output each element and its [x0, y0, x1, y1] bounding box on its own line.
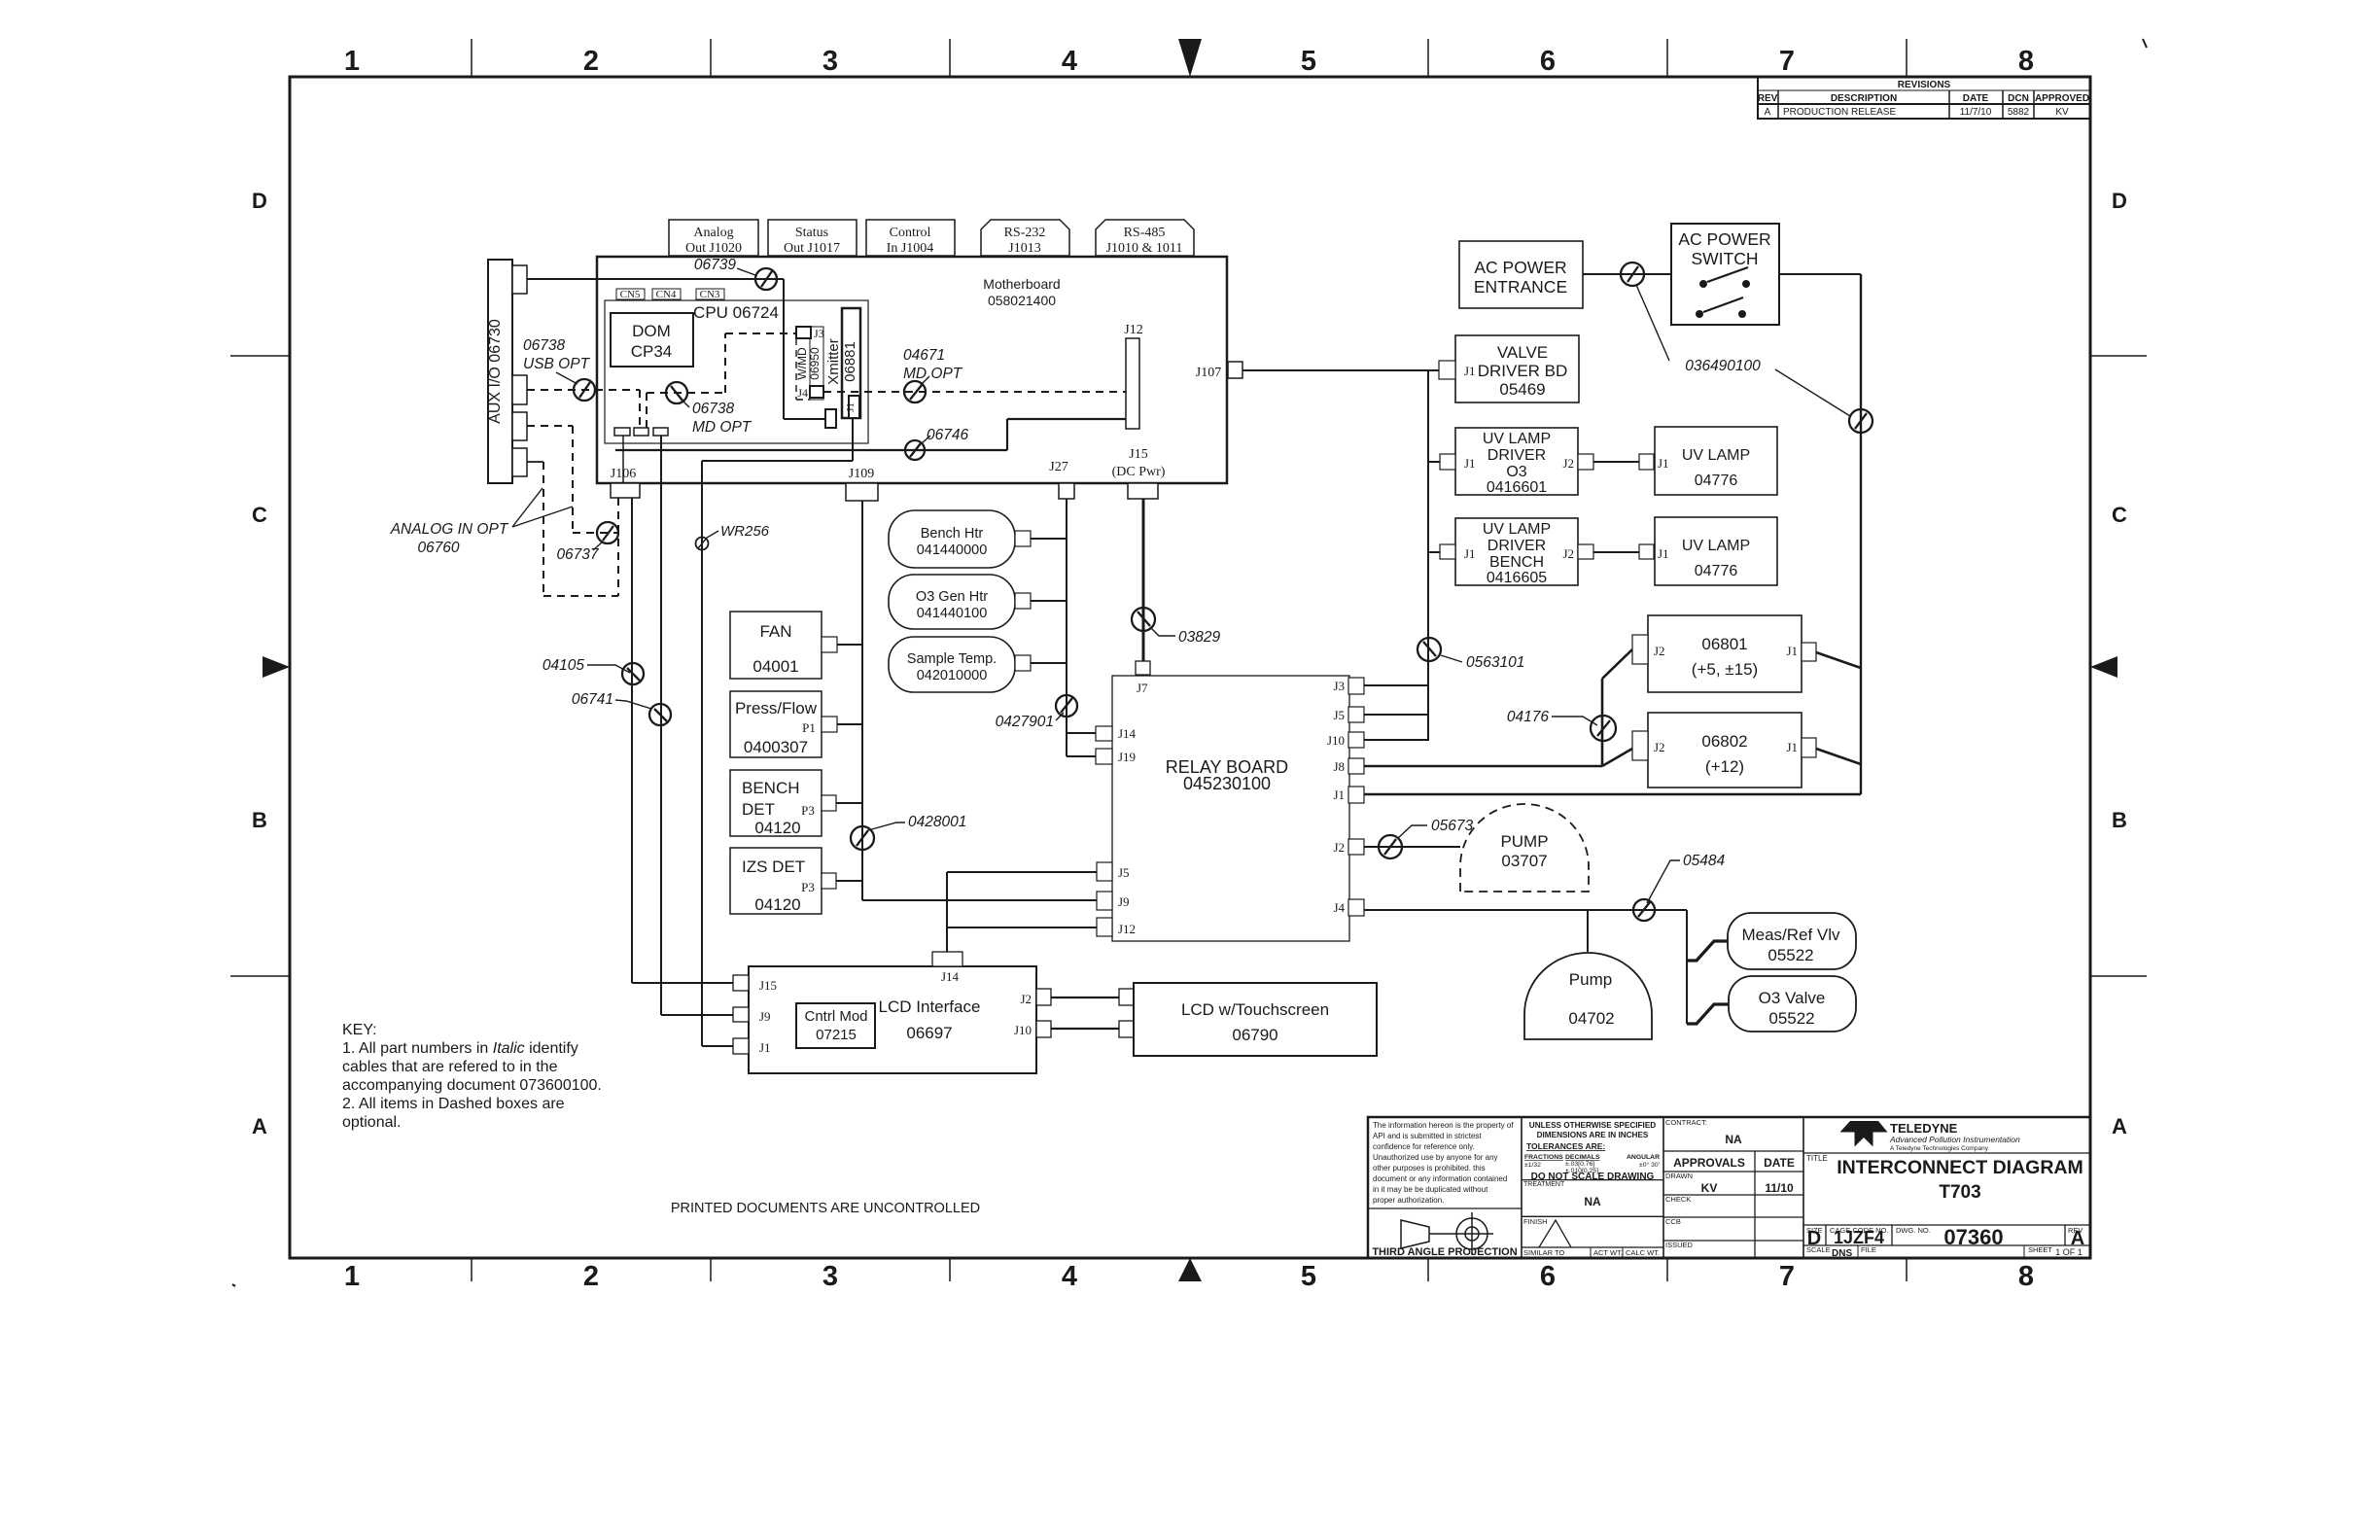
svg-text:DRIVER BD: DRIVER BD	[1478, 362, 1568, 380]
svg-text:CP34: CP34	[631, 342, 673, 361]
svg-text:04176: 04176	[1507, 709, 1549, 725]
svg-text:05484: 05484	[1683, 853, 1725, 869]
svg-text:Bench Htr: Bench Htr	[921, 526, 984, 542]
svg-text:J9: J9	[759, 1009, 771, 1024]
svg-text:DNS: DNS	[1832, 1248, 1852, 1259]
svg-text:J109: J109	[849, 467, 874, 481]
svg-text:AC POWER: AC POWER	[1678, 229, 1770, 249]
svg-text:06881: 06881	[842, 341, 858, 382]
svg-text:03829: 03829	[1178, 629, 1220, 646]
svg-text:J19: J19	[1118, 750, 1136, 764]
svg-text:Advanced Pollution Instrumenta: Advanced Pollution Instrumentation	[1889, 1135, 2020, 1144]
svg-text:TOLERANCES ARE:: TOLERANCES ARE:	[1526, 1141, 1605, 1151]
svg-text:±1/32: ±1/32	[1524, 1162, 1541, 1169]
svg-text:J15: J15	[759, 978, 777, 993]
svg-text:A Teledyne Technologies Compan: A Teledyne Technologies Company	[1890, 1145, 1989, 1152]
svg-text:CONTRACT:: CONTRACT:	[1665, 1118, 1707, 1127]
svg-text:041440100: 041440100	[917, 606, 988, 621]
svg-text:P3: P3	[801, 880, 815, 894]
svg-text:FINISH: FINISH	[1523, 1217, 1548, 1226]
svg-text:DATE: DATE	[1963, 93, 1989, 104]
svg-text:Control: Control	[890, 226, 931, 240]
svg-text:J2: J2	[1654, 644, 1665, 658]
svg-text:J1: J1	[1786, 740, 1798, 754]
svg-text:A: A	[2071, 1228, 2084, 1249]
svg-text:DRAWN: DRAWN	[1665, 1172, 1693, 1180]
svg-text:C: C	[252, 503, 267, 527]
svg-text:04671: 04671	[903, 347, 945, 364]
svg-text:MD OPT: MD OPT	[692, 419, 752, 436]
svg-text:1: 1	[344, 46, 360, 77]
svg-text:Out J1020: Out J1020	[685, 241, 742, 256]
svg-text:±0° 30': ±0° 30'	[1639, 1161, 1660, 1169]
svg-text:J1: J1	[1786, 644, 1798, 658]
svg-text:J15: J15	[1129, 447, 1147, 462]
svg-text:036490100: 036490100	[1685, 358, 1761, 374]
svg-text:5: 5	[1301, 1261, 1316, 1292]
svg-text:PRODUCTION RELEASE: PRODUCTION RELEASE	[1783, 107, 1896, 118]
svg-text:J8: J8	[1333, 759, 1345, 774]
svg-text:J2: J2	[1562, 546, 1574, 561]
svg-text:0400307: 0400307	[744, 738, 808, 756]
svg-text:2. All items in Dashed boxes a: 2. All items in Dashed boxes are	[342, 1096, 565, 1112]
svg-text:J5: J5	[1333, 708, 1345, 722]
svg-text:06746: 06746	[927, 427, 968, 443]
svg-text:(DC Pwr): (DC Pwr)	[1112, 465, 1166, 479]
svg-text:Motherboard: Motherboard	[983, 276, 1060, 292]
svg-text:04001: 04001	[752, 657, 798, 676]
svg-text:UV LAMP: UV LAMP	[1483, 431, 1551, 447]
svg-text:FRACTIONS: FRACTIONS	[1524, 1154, 1563, 1161]
svg-text:other purposes is prohibited.: other purposes is prohibited. this	[1373, 1164, 1486, 1172]
svg-text:Analog: Analog	[693, 226, 733, 240]
svg-text:RS-232: RS-232	[1004, 226, 1046, 240]
svg-text:UV LAMP: UV LAMP	[1682, 447, 1750, 464]
svg-text:THIRD ANGLE PROJECTION: THIRD ANGLE PROJECTION	[1372, 1246, 1517, 1258]
svg-text:J5: J5	[1118, 865, 1130, 880]
svg-text:0427901: 0427901	[996, 714, 1054, 730]
svg-text:J4: J4	[797, 386, 808, 400]
svg-text:4: 4	[1062, 1261, 1077, 1292]
svg-text:PRINTED DOCUMENTS ARE UNCONTRO: PRINTED DOCUMENTS ARE UNCONTROLLED	[671, 1201, 980, 1216]
svg-text:W/MD: W/MD	[795, 347, 809, 380]
svg-text:BENCH: BENCH	[742, 779, 800, 797]
svg-text:042010000: 042010000	[917, 668, 988, 683]
svg-text:06760: 06760	[417, 540, 459, 556]
svg-text:J1: J1	[1464, 364, 1476, 378]
svg-text:RS-485: RS-485	[1124, 226, 1166, 240]
svg-text:3: 3	[822, 46, 838, 77]
svg-text:8: 8	[2018, 1261, 2034, 1292]
svg-text:8: 8	[2018, 46, 2034, 77]
svg-text:proper authorization.: proper authorization.	[1373, 1196, 1444, 1205]
svg-text:Status: Status	[795, 226, 828, 240]
svg-text:SWITCH: SWITCH	[1691, 249, 1758, 268]
svg-text:04120: 04120	[754, 895, 800, 914]
svg-text:TREATMENT: TREATMENT	[1523, 1181, 1565, 1188]
svg-text:DCN: DCN	[2008, 93, 2029, 104]
svg-text:BENCH: BENCH	[1489, 554, 1544, 571]
svg-text:REV: REV	[1758, 93, 1778, 104]
svg-text:2: 2	[583, 46, 599, 77]
svg-text:In J1004: In J1004	[887, 241, 934, 256]
svg-text:J12: J12	[1118, 922, 1136, 936]
svg-text:CN5: CN5	[620, 289, 641, 300]
svg-text:P3: P3	[801, 803, 815, 818]
svg-text:7: 7	[1779, 1261, 1795, 1292]
svg-text:T703: T703	[1939, 1182, 1980, 1203]
svg-text:J2: J2	[1654, 740, 1665, 754]
svg-text:ANGULAR: ANGULAR	[1627, 1154, 1660, 1161]
svg-text:ACT WT.: ACT WT.	[1593, 1248, 1623, 1257]
svg-text:CN3: CN3	[700, 289, 720, 300]
svg-text:05522: 05522	[1767, 946, 1813, 964]
svg-text:11/7/10: 11/7/10	[1960, 107, 1992, 118]
svg-text:CALC WT.: CALC WT.	[1626, 1248, 1660, 1257]
svg-text:J27: J27	[1049, 460, 1067, 474]
svg-text:06739: 06739	[694, 257, 736, 273]
svg-text:J7: J7	[1137, 681, 1148, 695]
svg-text:CPU 06724: CPU 06724	[693, 303, 779, 322]
svg-text:J1013: J1013	[1008, 241, 1040, 256]
svg-text:1 OF 1: 1 OF 1	[2055, 1247, 2082, 1257]
svg-text:06802: 06802	[1701, 732, 1747, 751]
svg-text:Xmitter: Xmitter	[825, 338, 842, 385]
svg-text:J107: J107	[1196, 366, 1221, 380]
svg-text:PUMP: PUMP	[1500, 832, 1548, 851]
svg-text:DRIVER: DRIVER	[1487, 538, 1546, 554]
svg-text:J1: J1	[1464, 456, 1476, 471]
svg-text:06950: 06950	[808, 347, 822, 380]
svg-text:D: D	[252, 189, 267, 213]
svg-text:J2: J2	[1562, 456, 1574, 471]
svg-text:J1: J1	[1464, 546, 1476, 561]
svg-text:AC POWER: AC POWER	[1474, 258, 1566, 277]
svg-text:06697: 06697	[906, 1024, 952, 1042]
svg-text:07215: 07215	[816, 1027, 857, 1043]
svg-text:LCD Interface: LCD Interface	[879, 997, 981, 1016]
svg-text:document or any information co: document or any information contained	[1373, 1174, 1507, 1183]
svg-text:AUX I/O 06730: AUX I/O 06730	[487, 319, 504, 424]
svg-text:06790: 06790	[1232, 1026, 1277, 1044]
svg-text:CN4: CN4	[656, 289, 677, 300]
svg-text:6: 6	[1540, 1261, 1556, 1292]
svg-text:0416605: 0416605	[1487, 570, 1547, 586]
svg-text:O3: O3	[1506, 464, 1526, 480]
svg-text:DOM: DOM	[632, 322, 671, 340]
svg-text:05673: 05673	[1431, 818, 1473, 834]
svg-text:J1: J1	[1658, 456, 1669, 471]
svg-text:04776: 04776	[1695, 472, 1738, 489]
svg-text:KV: KV	[2055, 107, 2069, 118]
svg-text:UV LAMP: UV LAMP	[1483, 521, 1551, 538]
svg-text:MD OPT: MD OPT	[903, 366, 963, 382]
svg-text:J2: J2	[1333, 840, 1345, 855]
svg-text:O3 Gen Htr: O3 Gen Htr	[916, 589, 988, 605]
svg-text:A: A	[1765, 107, 1771, 118]
svg-text:1: 1	[344, 1261, 360, 1292]
svg-text:041440000: 041440000	[917, 542, 988, 558]
svg-text:DESCRIPTION: DESCRIPTION	[1831, 93, 1897, 104]
svg-text:J9: J9	[1118, 894, 1130, 909]
svg-text:J14: J14	[941, 969, 960, 984]
svg-text:Cntrl Mod: Cntrl Mod	[804, 1008, 867, 1025]
svg-text:05469: 05469	[1499, 380, 1545, 399]
svg-text:A: A	[252, 1114, 267, 1138]
svg-text:DET: DET	[742, 800, 775, 819]
svg-text:±.03[0.76]: ±.03[0.76]	[1565, 1161, 1594, 1168]
svg-text:058021400: 058021400	[988, 293, 1056, 308]
svg-text:confidence for reference only.: confidence for reference only.	[1373, 1142, 1475, 1151]
svg-text:4: 4	[1062, 46, 1077, 77]
svg-text:(+5, ±15): (+5, ±15)	[1692, 660, 1758, 679]
svg-text:06738: 06738	[523, 337, 565, 354]
svg-text:ANALOG IN OPT: ANALOG IN OPT	[390, 521, 509, 538]
svg-text:06741: 06741	[572, 691, 613, 708]
svg-text:J4: J4	[1333, 900, 1345, 915]
svg-text:optional.: optional.	[342, 1114, 402, 1131]
svg-text:Press/Flow: Press/Flow	[735, 699, 818, 717]
svg-text:3: 3	[822, 1261, 838, 1292]
svg-text:A: A	[2112, 1114, 2127, 1138]
svg-text:J1: J1	[1333, 787, 1345, 802]
svg-text:KV: KV	[1701, 1181, 1718, 1195]
svg-text:J14: J14	[1118, 726, 1137, 741]
svg-text:Sample Temp.: Sample Temp.	[907, 651, 997, 667]
svg-text:P1: P1	[802, 720, 816, 735]
svg-text:in it may be be duplicated wit: in it may be be duplicated without	[1373, 1185, 1488, 1194]
svg-text:DECIMALS: DECIMALS	[1565, 1154, 1600, 1161]
svg-text:J1: J1	[759, 1040, 771, 1055]
svg-text:ISSUED: ISSUED	[1665, 1241, 1694, 1249]
svg-text:0428001: 0428001	[908, 814, 966, 830]
svg-text:C: C	[2112, 503, 2127, 527]
svg-text:INTERCONNECT DIAGRAM: INTERCONNECT DIAGRAM	[1837, 1157, 2083, 1178]
svg-text:APPROVED: APPROVED	[2035, 93, 2089, 104]
svg-text:The information hereon is the: The information hereon is the property o…	[1373, 1121, 1514, 1130]
svg-text:J1010 & 1011: J1010 & 1011	[1106, 241, 1183, 256]
svg-text:TITLE: TITLE	[1806, 1154, 1828, 1163]
svg-text:B: B	[252, 808, 267, 832]
svg-text:J10: J10	[1014, 1023, 1032, 1037]
svg-text:O3 Valve: O3 Valve	[1759, 989, 1826, 1007]
svg-text:06738: 06738	[692, 401, 734, 417]
svg-text:DIMENSIONS ARE IN INCHES: DIMENSIONS ARE IN INCHES	[1537, 1131, 1649, 1139]
svg-text:Pump: Pump	[1569, 970, 1612, 989]
svg-text:2: 2	[583, 1261, 599, 1292]
svg-text:DRIVER: DRIVER	[1487, 447, 1546, 464]
svg-text:FILE: FILE	[1861, 1245, 1876, 1254]
svg-text:DATE: DATE	[1764, 1156, 1795, 1170]
svg-text:USB OPT: USB OPT	[523, 356, 591, 372]
svg-text:(+12): (+12)	[1705, 757, 1744, 776]
svg-text:06801: 06801	[1701, 635, 1747, 653]
svg-text:cables that are refered to in: cables that are refered to in the	[342, 1059, 558, 1075]
svg-text:B: B	[2112, 808, 2127, 832]
svg-text:ENTRANCE: ENTRANCE	[1474, 277, 1567, 297]
svg-text:CCB: CCB	[1665, 1217, 1681, 1226]
svg-text:DWG. NO.: DWG. NO.	[1896, 1226, 1931, 1235]
svg-text:Unauthorized use by anyone for: Unauthorized use by anyone for any	[1373, 1153, 1498, 1162]
svg-text:7: 7	[1779, 46, 1795, 77]
svg-text:SIMILAR TO: SIMILAR TO	[1523, 1248, 1564, 1257]
svg-text:5: 5	[1301, 46, 1316, 77]
svg-text:WR256: WR256	[720, 523, 770, 540]
svg-text:04105: 04105	[542, 657, 584, 674]
svg-text:06737: 06737	[556, 546, 599, 563]
svg-text:07360: 07360	[1943, 1225, 2003, 1249]
svg-text:J3: J3	[814, 327, 824, 340]
svg-text:11/10: 11/10	[1765, 1181, 1794, 1195]
svg-text:CHECK: CHECK	[1665, 1195, 1691, 1204]
svg-text:accompanying document 07360010: accompanying document 073600100.	[342, 1077, 602, 1094]
svg-text:IZS DET: IZS DET	[742, 857, 805, 876]
svg-text:KEY:: KEY:	[342, 1022, 377, 1038]
svg-text:04776: 04776	[1695, 563, 1738, 579]
svg-text:1JZF4: 1JZF4	[1834, 1228, 1884, 1247]
svg-text:J1: J1	[845, 402, 857, 412]
svg-text:05522: 05522	[1768, 1009, 1814, 1028]
svg-text:TELEDYNE: TELEDYNE	[1890, 1121, 1958, 1136]
svg-text:API and is submitted in strict: API and is submitted in strictest	[1373, 1132, 1482, 1140]
svg-text:D: D	[2112, 189, 2127, 213]
svg-text:APPROVALS: APPROVALS	[1673, 1156, 1745, 1170]
svg-text:NA: NA	[1725, 1133, 1742, 1146]
svg-text:J1: J1	[1658, 546, 1669, 561]
svg-text:0416601: 0416601	[1487, 479, 1547, 496]
svg-text:J10: J10	[1327, 733, 1345, 748]
svg-text:UNLESS OTHERWISE SPECIFIED: UNLESS OTHERWISE SPECIFIED	[1529, 1121, 1656, 1130]
svg-text:NA: NA	[1584, 1195, 1601, 1208]
svg-text:1. All part numbers in Italic: 1. All part numbers in Italic identify	[342, 1040, 578, 1057]
svg-text:SCALE: SCALE	[1806, 1245, 1831, 1254]
svg-text:UV LAMP: UV LAMP	[1682, 538, 1750, 554]
svg-text:J12: J12	[1124, 323, 1142, 337]
svg-text:J2: J2	[1020, 992, 1032, 1006]
svg-text:04120: 04120	[754, 819, 800, 837]
svg-text:0563101: 0563101	[1466, 654, 1524, 671]
svg-text:5882: 5882	[2008, 107, 2030, 118]
svg-text:LCD w/Touchscreen: LCD w/Touchscreen	[1181, 1000, 1329, 1019]
svg-text:SHEET: SHEET	[2028, 1245, 2052, 1254]
svg-text:Out J1017: Out J1017	[784, 241, 840, 256]
svg-text:6: 6	[1540, 46, 1556, 77]
svg-text:04702: 04702	[1568, 1009, 1614, 1028]
svg-text:03707: 03707	[1501, 852, 1547, 870]
svg-text:J3: J3	[1333, 679, 1345, 693]
svg-text:045230100: 045230100	[1183, 774, 1271, 793]
svg-text:VALVE: VALVE	[1497, 343, 1548, 362]
svg-text:Meas/Ref Vlv: Meas/Ref Vlv	[1741, 926, 1840, 944]
svg-text:FAN: FAN	[759, 622, 791, 641]
svg-text:REVISIONS: REVISIONS	[1898, 80, 1951, 90]
